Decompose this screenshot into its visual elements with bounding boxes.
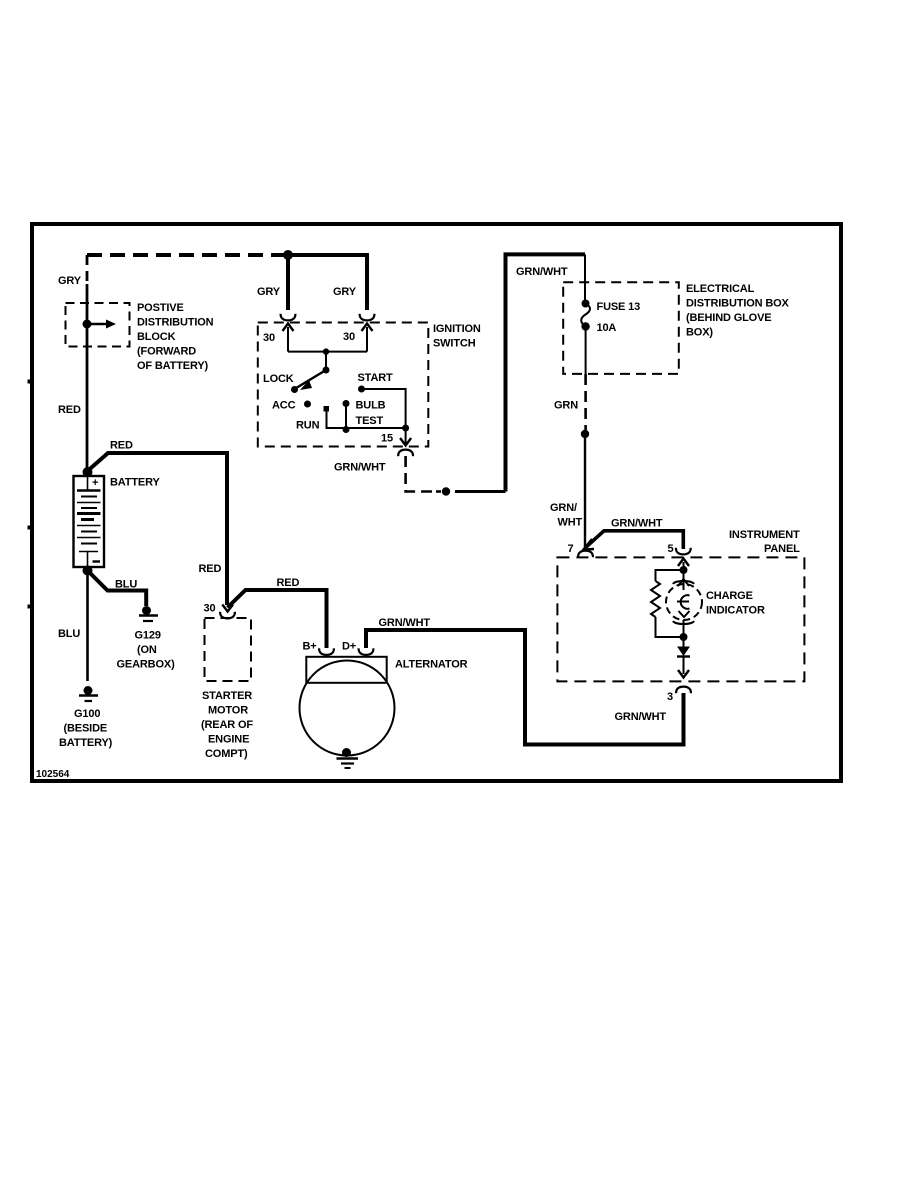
svg-text:DISTRIBUTION: DISTRIBUTION bbox=[137, 317, 214, 329]
battery bbox=[74, 476, 105, 567]
svg-text:GRN/WHT: GRN/WHT bbox=[615, 711, 667, 723]
svg-text:10A: 10A bbox=[597, 322, 617, 334]
svg-text:GRN: GRN bbox=[554, 400, 578, 412]
svg-text:FUSE 13: FUSE 13 bbox=[597, 301, 641, 313]
ignition switch dashed box bbox=[258, 323, 429, 447]
ground G129 bbox=[142, 606, 151, 615]
svg-text:BATTERY): BATTERY) bbox=[59, 737, 113, 749]
connector at 15 (below) bbox=[398, 450, 413, 457]
wire: left GRY drop bbox=[286, 255, 290, 310]
alternator circle bbox=[300, 661, 395, 756]
svg-text:MOTOR: MOTOR bbox=[208, 705, 248, 717]
svg-text:RED: RED bbox=[277, 577, 300, 589]
svg-text:GRN/WHT: GRN/WHT bbox=[334, 462, 386, 474]
fuse FUSE 13 10A bbox=[582, 300, 590, 308]
svg-text:RUN: RUN bbox=[296, 420, 320, 432]
svg-text:PANEL: PANEL bbox=[764, 543, 800, 555]
wire: stem to wiper pivot bbox=[325, 352, 327, 370]
alternator ground bbox=[342, 748, 351, 757]
filament bbox=[681, 595, 690, 609]
node: dot on dash-dot run bbox=[442, 487, 450, 495]
svg-text:GRN/WHT: GRN/WHT bbox=[611, 518, 663, 530]
svg-text:GRN/WHT: GRN/WHT bbox=[379, 617, 431, 629]
node: dot on GRN bbox=[581, 430, 589, 438]
wire: BLU to G129 bbox=[88, 571, 147, 607]
node: battery + dot bbox=[83, 467, 93, 477]
wire: GRN/WHT riser up and over bbox=[506, 254, 586, 491]
svg-text:DISTRIBUTION BOX: DISTRIBUTION BOX bbox=[686, 298, 790, 310]
border scan ticks bbox=[28, 380, 31, 384]
terminal 7: arrow down-left bbox=[584, 539, 595, 550]
svg-text:BLU: BLU bbox=[115, 579, 137, 591]
svg-text:WHT: WHT bbox=[558, 517, 583, 529]
svg-text:(BESIDE: (BESIDE bbox=[64, 723, 108, 735]
svg-text:ALTERNATOR: ALTERNATOR bbox=[395, 659, 468, 671]
battery - node dot bbox=[83, 566, 93, 576]
terminal 15 arrow down bbox=[405, 428, 407, 444]
wire: START to 15 bbox=[362, 389, 406, 428]
wire: GRN dashed below box bbox=[584, 374, 587, 430]
wire: bus between 30 terminals bbox=[288, 351, 367, 353]
wire: solid top bus to right GRY drop bbox=[288, 255, 367, 310]
wire: GRN/WHT from 3 down bbox=[682, 693, 686, 746]
instrument panel dashed box bbox=[557, 557, 804, 681]
svg-text:ENGINE: ENGINE bbox=[208, 734, 249, 746]
wire: RED from battery to starter/alternator bbox=[88, 453, 228, 605]
svg-text:D+: D+ bbox=[342, 641, 356, 653]
wire: GRN/WHT from D+ bbox=[366, 630, 684, 745]
svg-text:RED: RED bbox=[58, 404, 81, 416]
svg-text:GRN/: GRN/ bbox=[550, 502, 577, 514]
svg-text:COMPT): COMPT) bbox=[205, 748, 248, 760]
wire: GRY dashed bus (top) bbox=[87, 253, 288, 257]
svg-text:IGNITION: IGNITION bbox=[433, 323, 481, 335]
arrow up into panel at 5 bbox=[678, 559, 689, 567]
svg-text:30: 30 bbox=[263, 332, 275, 344]
svg-text:30: 30 bbox=[343, 331, 355, 343]
svg-text:GRY: GRY bbox=[333, 286, 357, 298]
svg-text:GRY: GRY bbox=[257, 286, 281, 298]
svg-text:ACC: ACC bbox=[272, 400, 296, 412]
wire: GRN/WHT dashed from 15 bbox=[406, 456, 432, 492]
svg-text:RED: RED bbox=[110, 440, 133, 452]
arrow in distribution block bbox=[87, 323, 107, 325]
svg-text:+: + bbox=[92, 477, 98, 489]
svg-text:(ON: (ON bbox=[137, 644, 157, 656]
starter terminal arrow bbox=[222, 605, 233, 612]
charge indicator lamp bbox=[666, 584, 702, 620]
wire: GRY dashed vertical top-left bbox=[86, 255, 89, 284]
svg-text:ELECTRICAL: ELECTRICAL bbox=[686, 283, 755, 295]
svg-text:START: START bbox=[358, 372, 394, 384]
wire: RUN to 15 bus bbox=[327, 412, 406, 429]
diode bbox=[683, 637, 685, 647]
lamp socket arc bottom bbox=[679, 611, 690, 617]
terminal 30 left: arrow up bbox=[283, 324, 294, 332]
terminal 30 right: arrow up bbox=[362, 324, 373, 332]
wire: GRN/WHT to terminal 7 bbox=[584, 438, 586, 548]
connector at left GRY bbox=[281, 314, 296, 321]
svg-text:B+: B+ bbox=[303, 641, 317, 653]
svg-text:102564: 102564 bbox=[36, 769, 70, 780]
electrical distribution box (dashed) bbox=[563, 282, 679, 374]
svg-text:BLOCK: BLOCK bbox=[137, 331, 176, 343]
svg-text:GRY: GRY bbox=[58, 275, 82, 287]
node: bottom dot in panel bbox=[680, 633, 688, 641]
alternator top rect bbox=[306, 657, 386, 683]
connector at right GRY bbox=[360, 314, 375, 321]
svg-text:GRN/WHT: GRN/WHT bbox=[516, 266, 568, 278]
resistor branch bbox=[656, 570, 684, 581]
lamp socket arc top bbox=[673, 581, 694, 584]
terminal 5 connector bbox=[676, 548, 691, 555]
wire into fuse bbox=[584, 254, 586, 303]
connector D+ bbox=[359, 648, 374, 655]
svg-text:INSTRUMENT: INSTRUMENT bbox=[729, 529, 800, 541]
svg-text:(REAR OF: (REAR OF bbox=[201, 719, 253, 731]
svg-text:30: 30 bbox=[204, 603, 216, 615]
svg-text:7: 7 bbox=[568, 543, 574, 555]
outer border frame bbox=[32, 224, 841, 781]
terminal 3 arrow down bbox=[678, 670, 689, 678]
svg-text:GEARBOX): GEARBOX) bbox=[117, 659, 176, 671]
svg-text:STARTER: STARTER bbox=[202, 690, 252, 702]
svg-text:G129: G129 bbox=[135, 630, 161, 642]
node: junction dot top bus bbox=[283, 250, 293, 260]
wire: GRN/WHT branch to terminal 5 bbox=[585, 531, 683, 549]
starter motor dashed box bbox=[205, 618, 252, 681]
svg-text:BULB: BULB bbox=[356, 400, 386, 412]
svg-text:POSTIVE: POSTIVE bbox=[137, 302, 184, 314]
wire: RED vertical from block to battery bbox=[86, 284, 89, 472]
svg-text:OF BATTERY): OF BATTERY) bbox=[137, 360, 209, 372]
svg-text:LOCK: LOCK bbox=[263, 373, 294, 385]
svg-text:SWITCH: SWITCH bbox=[433, 338, 476, 350]
svg-text:15: 15 bbox=[381, 433, 393, 445]
node: dot on bus bbox=[323, 348, 329, 354]
connector B+ bbox=[319, 648, 334, 655]
wire: solid to riser bbox=[455, 490, 506, 493]
node: top dot in panel bbox=[680, 566, 688, 574]
svg-text:TEST: TEST bbox=[356, 415, 384, 427]
svg-text:5: 5 bbox=[668, 543, 674, 555]
svg-text:CHARGE: CHARGE bbox=[706, 590, 753, 602]
svg-text:BOX): BOX) bbox=[686, 327, 713, 339]
svg-text:(BEHIND GLOVE: (BEHIND GLOVE bbox=[686, 312, 771, 324]
svg-text:BLU: BLU bbox=[58, 628, 80, 640]
svg-text:3: 3 bbox=[667, 691, 673, 703]
svg-text:RED: RED bbox=[199, 563, 222, 575]
node: dot in distribution block bbox=[83, 320, 92, 329]
svg-text:BATTERY: BATTERY bbox=[110, 477, 160, 489]
switch wiper toward LOCK bbox=[295, 370, 327, 389]
svg-text:INDICATOR: INDICATOR bbox=[706, 605, 765, 617]
resistor zigzag bbox=[651, 581, 660, 617]
svg-text:G100: G100 bbox=[74, 708, 100, 720]
svg-text:(FORWARD: (FORWARD bbox=[137, 346, 196, 358]
ground G100 bbox=[84, 686, 93, 695]
wire: BLU down to G100 bbox=[86, 571, 89, 682]
positive distribution block (dashed box) bbox=[66, 303, 130, 347]
